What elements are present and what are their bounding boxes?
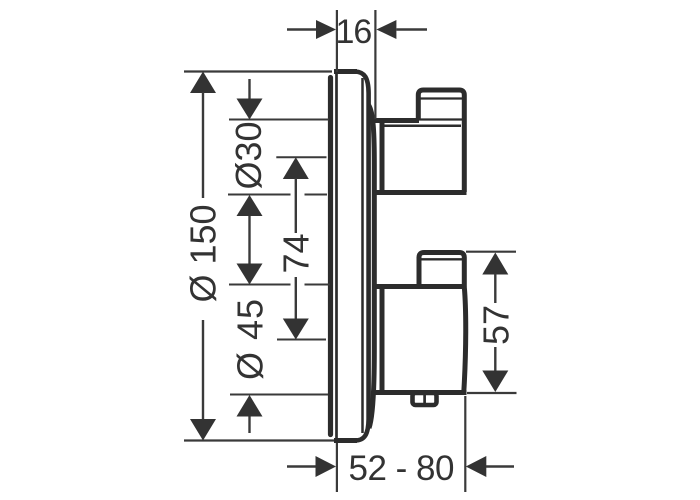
svg-text:57: 57 [476,305,517,345]
escutcheon plate back contour thin line [361,78,364,433]
lower handle body [374,287,467,393]
dimension Ø30 label [228,121,269,189]
top extension line at plate top [184,70,332,72]
svg-text:52 - 80: 52 - 80 [349,449,454,488]
dimension Ø45 arrows [237,264,263,434]
dimension Ø150 label [183,204,224,302]
upper handle body [374,120,467,193]
74 bottom tick [277,339,326,341]
lower handle bottom tab [413,393,437,405]
escutcheon plate back bulge line [369,105,375,428]
dimension Ø30 arrows [237,79,263,264]
upper handle grip cap [418,90,464,192]
lower handle grip cap [419,253,464,288]
dimension 57 line and arrows [482,253,508,393]
dimension Ø150 line and arrows [190,72,216,441]
dimension 16 label [336,13,372,51]
57 bottom extension line [467,392,517,394]
escutcheon plate bottom edge [334,438,357,443]
52-80 left extension line [336,443,338,492]
svg-text:Ø30: Ø30 [228,121,269,189]
svg-text:Ø 150: Ø 150 [183,204,224,302]
dimension 52-80 line and arrows [287,456,514,477]
dimension Ø45 label [230,298,271,380]
escutcheon plate front outer edge [328,78,333,435]
Ø45 top tick [229,284,330,286]
svg-text:Ø 45: Ø 45 [230,298,271,380]
Ø30 bottom tick [228,194,327,196]
dimension 52-80 label [349,449,454,488]
Ø45 bottom tick [230,394,328,396]
svg-text:16: 16 [336,13,372,51]
52-80 right extension line [464,396,466,492]
dimension 74 line and arrows [283,157,309,339]
dimension 74 label [276,233,317,273]
dimension 57 label [476,305,517,345]
escutcheon plate back edge curve [355,72,369,441]
svg-text:74: 74 [276,233,317,273]
16 left extension line [336,10,338,72]
dimension 16 line and arrows [287,20,427,39]
16 right extension line [374,10,376,119]
57 top extension line [466,251,516,253]
escutcheon plate top edge [334,69,357,74]
bottom extension line at plate bottom [184,439,334,441]
escutcheon plate front inner line [335,74,338,438]
74 top tick [276,156,326,158]
Ø30 top tick [229,119,329,121]
